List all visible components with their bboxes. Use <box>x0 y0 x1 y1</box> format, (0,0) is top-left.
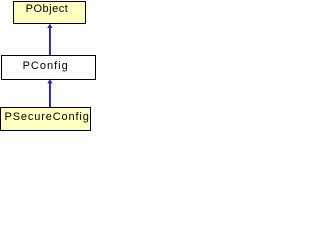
inheritance arrow PSecureConfig -> PConfig : head <box>47 79 52 83</box>
class box PObject <box>13 1 86 24</box>
class box PConfig (current class) <box>1 55 96 80</box>
inheritance arrow PConfig -> PObject : head <box>47 24 52 28</box>
class box PSecureConfig <box>0 107 91 131</box>
inheritance arrow PConfig -> PObject : stem <box>49 25 51 55</box>
label PObject <box>26 3 69 15</box>
inheritance arrow PSecureConfig -> PConfig : stem <box>49 81 51 108</box>
label PSecureConfig <box>5 111 90 123</box>
label PConfig <box>23 60 69 72</box>
